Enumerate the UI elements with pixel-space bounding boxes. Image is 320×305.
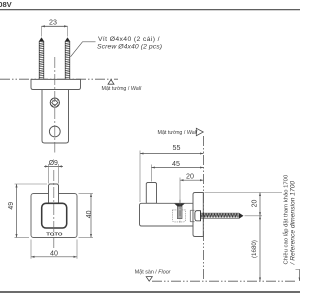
set screw hole (hidden lines) [172,210,185,222]
base square (front view) [31,194,77,238]
floor datum triangle [146,277,152,282]
svg-text:Ø9: Ø9 [49,160,58,167]
extension line left screw [41,26,43,36]
svg-text:49: 49 [8,202,15,210]
floor line (dash-dot) [152,280,297,282]
svg-text:20: 20 [186,173,194,181]
extension line right screw [67,26,69,36]
dimension 40 (right) [90,194,92,238]
hook face square (front view) [42,203,67,228]
bottom border line [0,291,300,293]
wall plate (side view) [193,193,203,237]
arm body (side view) [140,203,194,226]
svg-text:Vít Ø4x40 (2 cái) /: Vít Ø4x40 (2 cái) / [98,36,160,43]
svg-text:/ Reference dimension 1700: / Reference dimension 1700 [290,181,297,266]
svg-text:Screw Ø4x40 (2 pcs): Screw Ø4x40 (2 pcs) [97,43,162,50]
hook body (top view) [42,90,69,144]
dimension Ø9 line [44,165,63,167]
wall line (side view, vertical dash-dot) [203,136,205,281]
screw tip [239,213,244,219]
set screw centerline [179,200,181,223]
hook pin (front view) [49,184,59,203]
mounting hole (top view) [49,126,60,137]
centerline (front view) [53,170,55,248]
svg-text:23: 23 [49,19,57,27]
pin over square top [49,189,58,203]
extension line from screw tip [245,215,263,217]
extension line plate top [205,192,283,194]
svg-text:Mặt tường / Wall: Mặt tường / Wall [158,130,198,136]
wall datum triangle (side view) [196,128,203,135]
extension lines 40 bottom [30,240,32,259]
mounting screw (side view, into wall) [195,211,201,221]
svg-text:40: 40 [86,210,93,218]
hook post (side view) [146,183,156,204]
dimension 20 (vertical right) [259,193,261,216]
svg-text:TOTO: TOTO [46,231,63,237]
screw thread (zigzag) [201,213,239,218]
dimension 23 line [42,25,68,27]
extension lines 49 [15,183,48,185]
svg-text:20: 20 [251,200,258,208]
screw S2 (right wall screw) [65,38,70,80]
leader line to screw [71,42,96,57]
svg-text:408V: 408V [0,0,13,9]
extension lines Ø9 [48,164,50,184]
svg-text:45: 45 [172,160,180,168]
reference 1700 dimension (clipped at right edge) [296,269,301,271]
dimension (1680) [259,216,261,281]
set screw (side view, countersunk) [175,204,185,207]
dimension 40 (bottom) [31,256,77,258]
top border line [0,9,300,11]
svg-text:Mặt sàn / Floor: Mặt sàn / Floor [135,269,171,275]
extension lines 40 right [79,193,94,195]
dimension 49 (left) [16,184,18,238]
screw S1 (left wall screw) [39,38,44,80]
wall plate (top view) [31,79,81,89]
svg-text:Mặt tường / Wall: Mặt tường / Wall [102,86,142,92]
set screw head (top view, phillips) [50,98,59,107]
svg-text:(1680): (1680) [251,240,258,258]
svg-text:55: 55 [173,144,181,152]
wall datum triangle (top view) [108,80,114,85]
wall line (top view, dash-dot) [0,78,118,80]
centerline (top view vertical) [54,57,56,153]
svg-text:40: 40 [50,250,58,258]
screw recess in arm (side view) [190,209,194,211]
